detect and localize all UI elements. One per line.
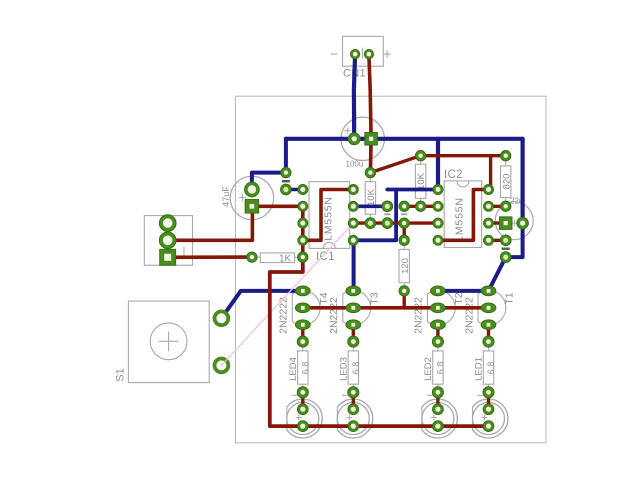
resistor R4 120 body	[399, 249, 409, 282]
wire blue rail drop right to C3	[520, 139, 524, 223]
board outline	[235, 96, 546, 443]
svg-text:IC2: IC2	[444, 169, 463, 181]
wire red T4 to RLED4	[301, 325, 304, 342]
IC2 pin 0 right	[484, 185, 494, 195]
CN1 plus pin label	[384, 53, 390, 55]
wire blue CN1- down to C1 pad	[354, 54, 355, 139]
T3 pad B	[346, 303, 361, 313]
node pad via C1	[399, 201, 409, 211]
LED3 pad anode	[348, 404, 359, 415]
T1 pad B	[481, 303, 496, 313]
resistor R5 1K body	[260, 253, 294, 263]
connector CN1 outline	[343, 36, 384, 66]
node label D	[502, 248, 510, 250]
R5 pad right	[298, 252, 308, 262]
IC1 pin 2 left	[298, 218, 308, 228]
svg-text:6.8: 6.8	[300, 362, 310, 375]
LED LED4 outline	[287, 403, 319, 435]
svg-text:T1: T1	[504, 292, 516, 304]
T1 pad C	[481, 320, 496, 330]
wire red RLED2 to LED2	[436, 392, 439, 409]
resistor RLED3 body	[348, 351, 358, 384]
LED2 pad anode	[433, 404, 444, 415]
C2 pad minus	[245, 200, 259, 214]
LED2 pad cathode	[433, 421, 444, 432]
wire red C2 to IC1 pin	[252, 205, 303, 209]
IC2 pin 2 left	[433, 218, 443, 228]
wire blue IC1 down to T3	[352, 240, 356, 291]
node pad via D2	[500, 252, 511, 263]
LED LED3 outline	[337, 403, 369, 435]
CN1 pad 1	[350, 49, 359, 58]
RLED2 pad top	[432, 336, 443, 347]
svg-text:10K: 10K	[366, 188, 377, 206]
wire red IC1 internal	[303, 190, 354, 241]
wire blue C2 to node	[252, 173, 286, 190]
wire red T1 to RLED1	[487, 325, 490, 342]
IC1 pin 1 left	[298, 201, 308, 211]
RLED4 pad bottom	[297, 387, 308, 398]
op-amp IC2 LM555N outline	[444, 181, 482, 248]
T4 pad B	[295, 303, 310, 313]
C1 pad plus	[365, 133, 378, 146]
LED3 pad cathode	[348, 421, 359, 432]
LED1 pad cathode	[483, 421, 494, 432]
IC1 pin 3 left	[298, 235, 308, 245]
wire red X1 bottom to R5	[168, 255, 252, 259]
node pad via B1	[382, 201, 393, 212]
R5 pad left	[247, 252, 257, 262]
transistor QT3 outline 2N2222	[343, 290, 371, 325]
wire blue rail drop to IC2	[436, 139, 440, 190]
RLED3 pad top	[348, 336, 359, 347]
resistor R1 10K body	[365, 182, 375, 215]
resistor R2 10K body	[415, 164, 425, 198]
T2 pad E	[431, 286, 446, 296]
node label C	[401, 213, 407, 215]
wire red header to IC2 pin row1	[404, 205, 438, 208]
resistor RLED2 body	[433, 351, 443, 384]
CN1 pad 2	[364, 49, 373, 58]
wire red IC2 to R3 bottom	[489, 205, 506, 208]
wire red X1 mid to C2	[168, 206, 253, 240]
R1 pad bottom	[365, 218, 376, 229]
LED4 pad anode	[297, 404, 308, 415]
wire red rail drop to IC2 pin	[489, 156, 491, 190]
IC2 pin 2 right	[484, 218, 494, 228]
svg-text:6.8: 6.8	[351, 362, 361, 375]
svg-text:820: 820	[501, 174, 512, 190]
wire red IC2 internal	[438, 190, 489, 241]
svg-text:6.8: 6.8	[435, 362, 445, 375]
wire blue via to T1	[489, 257, 506, 291]
svg-text:LM555N: LM555N	[323, 196, 335, 241]
node pad via A1	[281, 167, 291, 177]
wire red transistor base rail	[303, 306, 489, 310]
T1 pad E	[481, 286, 496, 296]
node pad via C2	[399, 218, 409, 228]
wire blue IC1 to via row	[353, 205, 387, 209]
node label A	[282, 180, 290, 182]
capacitor C1 100u outline	[341, 117, 384, 160]
IC1 pin 0 right	[348, 185, 358, 195]
resistor RLED4 body	[298, 351, 308, 384]
S1 pad hole 1	[216, 313, 226, 323]
RLED2 pad bottom	[432, 387, 443, 398]
capacitor C2 47uF outline	[230, 176, 273, 219]
wire blue S1 to T4	[221, 291, 302, 318]
IC1 pin 2 right	[348, 218, 358, 228]
R3 pad bottom	[501, 201, 511, 211]
CN1 minus pin label	[331, 53, 337, 55]
IC2 pin 3 right	[484, 235, 494, 245]
C1 pad minus	[348, 133, 360, 145]
C3 pad minus	[499, 217, 512, 230]
LED LED2 outline	[422, 403, 454, 435]
T3 pad C	[346, 320, 361, 330]
LED1 pad anode	[483, 404, 494, 415]
svg-text:6.8: 6.8	[486, 362, 496, 375]
wire red R5 to LED ground bus	[270, 257, 489, 426]
svg-text:100u: 100u	[346, 160, 364, 169]
C3 pad plus	[517, 217, 529, 229]
wire red header drop to R4	[403, 223, 406, 240]
node pad via A2	[281, 184, 292, 195]
R2 pad bottom	[415, 201, 425, 211]
T2 pad C	[431, 320, 446, 330]
R1 pad top	[365, 167, 375, 177]
RLED4 pad top	[297, 336, 308, 347]
svg-text:1K: 1K	[279, 253, 292, 264]
svg-text:47uF: 47uF	[221, 186, 231, 207]
wire red IC1 left column	[301, 206, 305, 257]
wire blue horizontal power rail	[286, 137, 523, 141]
svg-text:S1: S1	[115, 368, 127, 381]
T4 pad E	[295, 286, 310, 296]
IC2 pin 0 left	[433, 185, 443, 195]
wire blue IC2 branch to IC1 pin	[353, 190, 396, 241]
X1 pad 3	[160, 249, 176, 265]
RLED3 pad bottom	[348, 387, 359, 398]
svg-text:LED3: LED3	[339, 357, 350, 381]
R4 pad bottom	[399, 286, 409, 296]
X1 pad 2	[159, 232, 176, 249]
transistor QT1 outline 2N2222	[478, 290, 506, 325]
wire blue C3 to via	[506, 223, 523, 257]
wire red CN1+ down to C1 plus pad	[369, 54, 371, 139]
svg-text:LM555N: LM555N	[454, 197, 466, 242]
airwire S1 to IC1	[221, 223, 353, 365]
wire blue T2 to T1	[438, 289, 489, 293]
svg-text:LED1: LED1	[474, 357, 485, 381]
svg-text:120: 120	[400, 258, 411, 274]
IC1 pin 3 right	[348, 235, 358, 245]
svg-text:2N2222: 2N2222	[463, 297, 475, 334]
wire red IC1 to IC2 row2	[353, 221, 438, 224]
wire red IC2 to via pair	[489, 239, 506, 242]
R3 pad top	[501, 151, 511, 161]
wire red RLED1 to LED1	[487, 392, 490, 409]
capacitor C3 22u outline	[495, 202, 533, 240]
resistor R3 820 body	[501, 166, 511, 198]
R2 pad top	[415, 151, 425, 161]
RLED1 pad top	[483, 336, 494, 347]
svg-text:LED2: LED2	[423, 357, 434, 381]
IC1 pin 0 left	[298, 185, 308, 195]
svg-text:LED4: LED4	[288, 357, 299, 381]
wire blue node to IC1 pin	[286, 188, 303, 192]
IC2 pin 3 left	[433, 235, 443, 245]
wire red T2 to RLED2	[436, 325, 439, 342]
wire red T3 to RLED3	[352, 325, 355, 342]
wire blue via to IC2 pin	[387, 188, 438, 192]
svg-text:2N2222: 2N2222	[328, 297, 340, 334]
node pad via D1	[500, 235, 511, 246]
svg-text:2N2222: 2N2222	[413, 297, 425, 334]
node label B	[384, 213, 390, 215]
transistor QT2 outline 2N2222	[427, 290, 455, 325]
node pad via B2	[382, 218, 393, 229]
S1 pad hole 2	[216, 360, 226, 370]
T4 pad C	[295, 320, 310, 330]
IC1 pin 1 right	[348, 201, 358, 211]
svg-text:T3: T3	[368, 292, 380, 304]
wire blue left rail drop	[284, 139, 288, 173]
connector X1 outline	[144, 216, 192, 266]
C2 pad plus	[245, 182, 260, 197]
T3 pad E	[346, 286, 361, 296]
wire red top rail R2 to R3	[421, 154, 506, 157]
wire red IC2 to C3	[489, 221, 506, 224]
resistor RLED1 body	[483, 351, 493, 384]
op-amp IC1 LM555N outline	[309, 182, 350, 249]
wire red C1 to R1 top	[369, 139, 373, 173]
LED4 pad cathode	[297, 421, 308, 432]
wire red R1 diagonal to R2	[370, 156, 420, 173]
T2 pad B	[431, 303, 446, 313]
wire red RLED3 to LED3	[352, 392, 355, 409]
wire red R4 to base rail	[403, 291, 406, 308]
svg-text:10K: 10K	[416, 172, 427, 190]
RLED1 pad bottom	[483, 387, 494, 398]
IC2 pin 1 left	[433, 201, 443, 211]
transistor QT4 outline 2N2222	[292, 290, 320, 325]
switch S1 outline	[128, 301, 209, 383]
wire red RLED4 to LED4	[301, 392, 304, 409]
LED LED1 outline	[473, 403, 505, 435]
X1 pad 1	[159, 215, 176, 232]
IC2 pin 1 right	[484, 201, 494, 211]
R4 pad top	[399, 235, 409, 245]
